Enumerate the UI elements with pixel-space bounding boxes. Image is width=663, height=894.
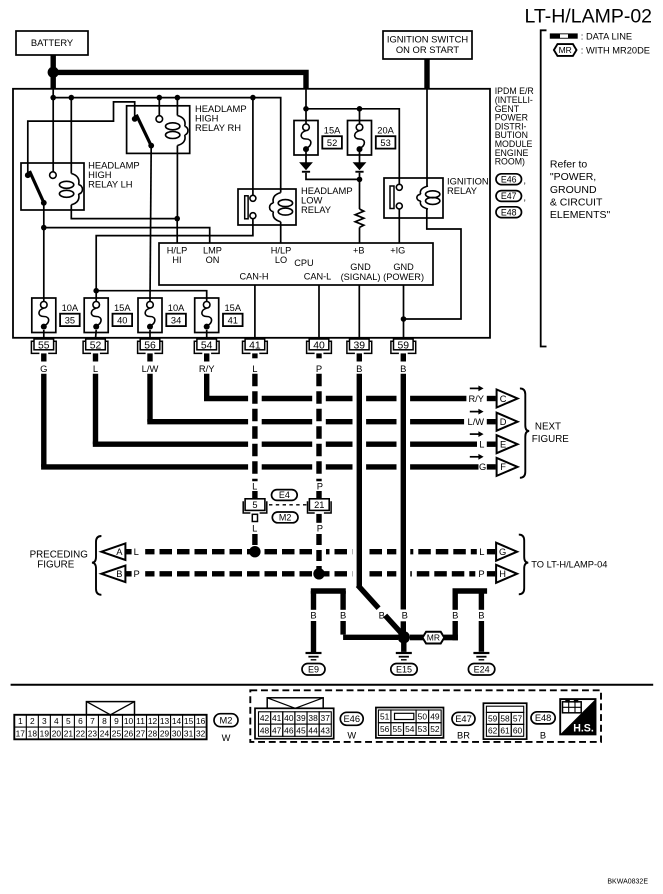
wire GND POWER to term59: [403, 285, 405, 339]
svg-text:G: G: [40, 363, 47, 374]
relay ignition box: [384, 178, 443, 218]
svg-text:52: 52: [430, 724, 440, 734]
dashed HS box: [250, 690, 601, 742]
oval E48 label: [496, 207, 522, 218]
svg-text:E47: E47: [501, 191, 517, 201]
svg-text:,: ,: [524, 176, 526, 186]
node CAN-H bus: [249, 546, 260, 557]
triangle A: [101, 543, 125, 560]
svg-text:P: P: [317, 523, 323, 534]
svg-text:12: 12: [148, 716, 158, 726]
svg-text:G: G: [479, 462, 486, 472]
next figure row D: [470, 411, 480, 413]
svg-text:43: 43: [321, 725, 331, 735]
svg-text:R/Y: R/Y: [199, 363, 215, 374]
wire fuse40 to term52: [95, 330, 98, 339]
svg-text:22: 22: [76, 728, 86, 738]
relay LH blade out node: [41, 200, 47, 206]
fuse 10A 34: [138, 298, 186, 333]
svg-text:B: B: [478, 609, 484, 620]
wire rail to LH contact: [52, 98, 54, 172]
svg-text:LMP: LMP: [203, 245, 222, 255]
svg-text:44: 44: [308, 725, 318, 735]
node coil-gnd join: [401, 316, 407, 322]
connector M2 tab: [86, 702, 134, 715]
oval E47 label: [496, 191, 522, 202]
wire B39 diagonal: [358, 585, 379, 608]
svg-text:RELAY LH: RELAY LH: [88, 178, 132, 189]
IPDM E/R box: [13, 89, 490, 338]
diode D2: [359, 152, 361, 163]
node diode join: [357, 177, 363, 183]
wire battery stub into IPDM: [51, 72, 56, 89]
wire ignition contact to +IG: [398, 209, 400, 243]
oval E46: [340, 712, 363, 725]
svg-text:16: 16: [196, 716, 206, 726]
svg-text:BKWA0832E: BKWA0832E: [607, 879, 648, 886]
wire B39: [357, 374, 362, 587]
svg-text:34: 34: [171, 315, 181, 325]
ground U right: [453, 588, 488, 593]
svg-text:CPU: CPU: [294, 258, 313, 268]
terminal 41: [243, 339, 268, 353]
svg-text:"POWER,: "POWER,: [550, 171, 596, 183]
wire B59: [401, 374, 406, 610]
terminal 54: [194, 339, 219, 353]
svg-text:21: 21: [64, 728, 74, 738]
svg-text:51: 51: [380, 712, 390, 722]
svg-text:19: 19: [40, 728, 50, 738]
dashed link 5-21: [269, 504, 308, 506]
svg-text:H/LP: H/LP: [271, 245, 291, 255]
node rail dots: [50, 95, 56, 101]
relay RH NO contact: [156, 116, 163, 123]
svg-text:25: 25: [112, 728, 122, 738]
svg-text:B: B: [540, 731, 546, 741]
terminal 40: [307, 339, 332, 353]
svg-text:32: 32: [196, 728, 206, 738]
svg-text:E15: E15: [396, 664, 412, 674]
wire stub R/Y at 206.7: [204, 353, 209, 361]
wire fuse35 to term55: [43, 330, 45, 339]
svg-text:: DATA LINE: : DATA LINE: [581, 32, 632, 42]
svg-text:E24: E24: [474, 664, 490, 674]
svg-text:39: 39: [354, 341, 366, 352]
svg-text:59: 59: [488, 714, 498, 724]
svg-text:RELAY RH: RELAY RH: [195, 122, 241, 133]
wire stub P at 319: [316, 353, 321, 358]
svg-text:7: 7: [90, 716, 95, 726]
wire diode join: [306, 173, 360, 180]
wire resistor to +B: [359, 227, 361, 243]
terminal 55: [31, 339, 56, 353]
svg-text:55: 55: [38, 341, 50, 352]
fuse 20A 53: [348, 121, 396, 156]
relay RH blade out node: [148, 143, 154, 149]
battery: [16, 31, 88, 55]
svg-text:BATTERY: BATTERY: [31, 37, 74, 48]
svg-text:23: 23: [88, 728, 98, 738]
svg-text:E48: E48: [501, 207, 517, 217]
wire R/Y: [204, 374, 209, 399]
svg-text:& CIRCUIT: & CIRCUIT: [550, 196, 603, 208]
svg-text:A: A: [116, 547, 123, 557]
svg-text:38: 38: [308, 713, 318, 723]
wire LH coil out: [71, 205, 177, 219]
HS icon: [563, 702, 582, 713]
ground E9: [306, 652, 322, 654]
node coil join: [174, 216, 180, 222]
wire CAN-H lower: [252, 534, 257, 552]
wire stub B at 403.3: [401, 353, 406, 361]
svg-text:(SIGNAL): (SIGNAL): [341, 272, 381, 282]
svg-text:5: 5: [252, 500, 257, 510]
svg-text:13: 13: [160, 716, 170, 726]
svg-text:B: B: [379, 609, 385, 620]
svg-text:18: 18: [28, 728, 38, 738]
svg-text:E9: E9: [308, 664, 319, 674]
svg-text:B: B: [116, 569, 122, 579]
node LH blade branch: [41, 225, 47, 231]
HS box: [560, 699, 595, 734]
legend MR hexagon: [554, 44, 577, 56]
wire CAN-L to term40: [318, 285, 320, 339]
ground E15: [401, 640, 406, 652]
svg-text:RELAY: RELAY: [301, 204, 332, 215]
svg-text:40: 40: [313, 341, 325, 352]
svg-text:(POWER): (POWER): [383, 272, 424, 282]
svg-text:47: 47: [272, 725, 282, 735]
wire LH blade to fuse35: [43, 203, 45, 302]
MR hexagon lower: [410, 635, 423, 641]
next figure row C: [470, 387, 480, 389]
svg-text:52: 52: [90, 341, 102, 352]
node fuse41 branch: [93, 288, 99, 294]
svg-text:26: 26: [124, 728, 134, 738]
wire stub L at 95.5: [93, 353, 98, 361]
svg-text:CAN-L: CAN-L: [304, 271, 332, 281]
next figure row F: [470, 456, 480, 458]
svg-text:G: G: [499, 547, 506, 557]
svg-text:41: 41: [249, 341, 261, 352]
svg-text:29: 29: [160, 728, 170, 738]
wire CAN-H to term41: [254, 285, 256, 339]
connector 21 lower stub: [316, 514, 321, 523]
svg-text:31: 31: [184, 728, 194, 738]
svg-text:52: 52: [327, 138, 337, 148]
connector 21: [309, 499, 329, 511]
svg-text:LT-H/LAMP-02: LT-H/LAMP-02: [525, 5, 653, 27]
wire fuse34 to term56: [149, 330, 151, 339]
triangle B: [101, 566, 125, 583]
svg-text:P: P: [478, 568, 484, 579]
svg-text:W: W: [222, 733, 231, 743]
svg-text:MR: MR: [427, 633, 440, 643]
svg-text:B: B: [356, 363, 362, 374]
svg-text:NEXT: NEXT: [535, 421, 561, 432]
svg-text:54: 54: [201, 341, 213, 352]
svg-text:W: W: [347, 731, 356, 741]
svg-text:5: 5: [66, 716, 71, 726]
wire GND SIGNAL to term39: [358, 285, 360, 339]
wire LMP ON: [44, 228, 210, 243]
wire fuse53 feed: [359, 109, 361, 124]
ground E24: [473, 652, 489, 654]
svg-text:,: ,: [524, 192, 526, 202]
wire L/W: [147, 374, 152, 422]
svg-text:20A: 20A: [377, 125, 394, 135]
oval M2: [214, 714, 238, 727]
wire rail to RH coil: [176, 98, 178, 116]
wire fuse52 feed: [305, 109, 307, 124]
relay RH coil: [177, 116, 185, 127]
svg-text:55: 55: [393, 724, 403, 734]
svg-text:ON: ON: [206, 255, 220, 265]
wire ignition coil to gnd line: [404, 209, 462, 319]
svg-text:FIGURE: FIGURE: [37, 559, 74, 570]
svg-text:HI: HI: [172, 255, 181, 265]
svg-text:L/W: L/W: [468, 417, 485, 427]
wire stub L at 254.9: [252, 353, 257, 358]
svg-text:56: 56: [380, 724, 390, 734]
wire L horizontal: [93, 442, 248, 447]
svg-text:L: L: [93, 363, 98, 374]
relay LH blade: [30, 171, 45, 204]
wire ignition switch feed: [424, 59, 429, 89]
svg-text:P: P: [316, 363, 322, 374]
svg-text:56: 56: [144, 341, 156, 352]
svg-text:R/Y: R/Y: [468, 394, 484, 404]
next figure brace: [520, 388, 529, 477]
svg-text:GND: GND: [393, 262, 414, 272]
fuse 15A 52: [294, 121, 342, 156]
wire battery feed to fuse rail: [305, 89, 307, 109]
svg-text:6: 6: [78, 716, 83, 726]
svg-text:46: 46: [284, 725, 294, 735]
svg-text:30: 30: [172, 728, 182, 738]
svg-text:21: 21: [314, 500, 324, 510]
node fuse rail j1: [303, 106, 309, 112]
wire ignition coil feed: [426, 89, 428, 186]
svg-text:8: 8: [102, 716, 107, 726]
wire battery thick feed: [53, 72, 306, 89]
svg-text:P: P: [133, 568, 139, 579]
svg-text:+B: +B: [353, 245, 365, 255]
wire CAN-L dashed: [316, 374, 321, 482]
wire rail to LH coil: [70, 98, 72, 174]
wire CAN-L lower: [316, 534, 321, 574]
svg-text:GND: GND: [350, 262, 371, 272]
wire stub G at 43.8: [41, 353, 46, 361]
svg-text:H.S.: H.S.: [573, 722, 594, 734]
legend data line symbol: [550, 33, 578, 38]
svg-text:49: 49: [430, 712, 440, 722]
svg-text:L: L: [252, 481, 257, 492]
svg-text:L: L: [252, 523, 257, 534]
svg-text:61: 61: [500, 726, 510, 736]
wire fuse41 to term54: [206, 330, 208, 339]
svg-text:40: 40: [117, 315, 127, 325]
svg-text:37: 37: [321, 713, 331, 723]
svg-text:L: L: [252, 363, 257, 374]
svg-text:45: 45: [296, 725, 306, 735]
svg-text:27: 27: [136, 728, 146, 738]
svg-text:24: 24: [100, 728, 110, 738]
relay low contact bar: [245, 196, 248, 219]
svg-text:C: C: [500, 394, 507, 404]
svg-text:CAN-H: CAN-H: [239, 271, 268, 281]
wire L: [93, 374, 98, 445]
terminal 56: [138, 339, 163, 353]
svg-text:60: 60: [513, 726, 523, 736]
resistor: [355, 209, 364, 227]
svg-text:E4: E4: [279, 490, 290, 500]
wire G: [41, 374, 46, 467]
node fuse rail j2: [357, 106, 363, 112]
svg-text:F: F: [500, 462, 506, 472]
bus line A (top): [145, 549, 312, 554]
relay LH NO contact: [50, 172, 57, 179]
svg-text:48: 48: [260, 725, 270, 735]
diode D1: [305, 152, 307, 163]
separator line: [11, 684, 654, 686]
relay LH coil: [71, 174, 79, 185]
svg-text:57: 57: [513, 714, 523, 724]
wire pivot jog LH-RH: [28, 102, 135, 175]
svg-text:LO: LO: [275, 255, 287, 265]
svg-text:35: 35: [65, 315, 75, 325]
svg-text:9: 9: [114, 716, 119, 726]
svg-text:B: B: [340, 609, 346, 620]
svg-text:D: D: [500, 417, 507, 427]
svg-text:53: 53: [418, 724, 428, 734]
connector E47: [376, 708, 444, 738]
oval E48: [531, 712, 555, 724]
fuse 10A 35: [32, 298, 80, 333]
svg-text:58: 58: [500, 714, 510, 724]
svg-text:15A: 15A: [225, 303, 242, 313]
svg-text:10A: 10A: [62, 303, 79, 313]
svg-text:41: 41: [228, 315, 238, 325]
svg-text:H: H: [499, 569, 506, 579]
wire CAN-H dashed: [252, 374, 257, 482]
svg-text:1: 1: [18, 716, 23, 726]
svg-text:GROUND: GROUND: [550, 184, 597, 196]
svg-text:E47: E47: [455, 714, 472, 724]
svg-text:MR: MR: [559, 45, 572, 55]
relay low box: [238, 189, 296, 225]
relay low contact circles: [250, 195, 256, 201]
wire R/Y horizontal: [204, 396, 248, 401]
svg-text:E46: E46: [343, 714, 360, 724]
svg-text:P: P: [317, 481, 323, 492]
svg-text:B: B: [310, 609, 316, 620]
svg-text:H/LP: H/LP: [167, 245, 187, 255]
svg-text:54: 54: [405, 724, 415, 734]
node battery junction: [48, 67, 59, 78]
connector E48: [483, 703, 526, 739]
svg-text:BR: BR: [457, 731, 470, 741]
svg-text:59: 59: [398, 341, 410, 352]
wire low contact out: [96, 219, 253, 302]
svg-text:15: 15: [184, 716, 194, 726]
svg-text:L: L: [134, 546, 139, 557]
svg-text:ON OR START: ON OR START: [396, 44, 459, 55]
wire rail battery inside IPDM: [52, 89, 54, 98]
wire rail to low relay contact: [252, 98, 254, 196]
ignition switch: [383, 31, 472, 59]
right bracket: [541, 30, 547, 346]
fuse 15A 40: [84, 298, 132, 333]
svg-text:L: L: [479, 440, 484, 450]
svg-text:4: 4: [54, 716, 59, 726]
terminal 52: [83, 339, 108, 353]
svg-text:10A: 10A: [168, 303, 185, 313]
svg-text:E46: E46: [501, 174, 517, 184]
connector M2 grid: [14, 715, 206, 740]
oval E47: [452, 712, 475, 725]
wire stub B at 359.3: [357, 353, 362, 361]
svg-text:ELEMENTS": ELEMENTS": [550, 209, 611, 221]
svg-text:39: 39: [296, 713, 306, 723]
fuse 15A 41: [195, 298, 243, 333]
wire G horizontal: [41, 464, 248, 469]
bus line B (bottom): [145, 571, 352, 576]
svg-text:2: 2: [30, 716, 35, 726]
svg-text:53: 53: [380, 138, 390, 148]
relay low coil: [273, 193, 281, 204]
wire low coil to H/LP LO: [280, 222, 282, 243]
wire rail to RH contact: [158, 98, 160, 116]
svg-text:62: 62: [488, 726, 498, 736]
svg-text:15A: 15A: [324, 125, 341, 135]
connector 5: [245, 499, 265, 511]
relay ignition coil: [420, 186, 428, 194]
wire RH coil out to H/LP HI: [176, 146, 178, 219]
svg-text:IGNITION SWITCH: IGNITION SWITCH: [387, 34, 468, 45]
node CAN-L bus: [313, 568, 324, 579]
oval M2 mid: [272, 512, 298, 523]
svg-text:40: 40: [284, 713, 294, 723]
ground U left: [311, 588, 346, 593]
svg-text:ROOM): ROOM): [495, 157, 525, 167]
svg-text:RELAY: RELAY: [447, 185, 478, 196]
svg-text:TO LT-H/LAMP-04: TO LT-H/LAMP-04: [531, 560, 607, 570]
svg-text:14: 14: [172, 716, 182, 726]
connector 5 lower stub: [252, 514, 257, 521]
svg-text:15A: 15A: [114, 303, 131, 313]
relay ignition contact bar: [390, 186, 394, 209]
svg-text:10: 10: [124, 716, 134, 726]
svg-text:17: 17: [16, 728, 26, 738]
terminal 39: [347, 339, 372, 353]
svg-text:FIGURE: FIGURE: [532, 434, 569, 445]
svg-text:B: B: [402, 609, 408, 620]
svg-text:20: 20: [52, 728, 62, 738]
wire L/W horizontal: [147, 419, 248, 424]
connector E46: [255, 708, 334, 738]
svg-text:L/W: L/W: [142, 363, 159, 374]
wire RH blade to fuse34: [150, 146, 151, 302]
relay LH box: [21, 163, 84, 210]
node ground join: [398, 631, 410, 643]
CPU box: [159, 243, 433, 285]
svg-text:41: 41: [272, 713, 282, 723]
right brace: [519, 535, 529, 595]
svg-text:M2: M2: [220, 715, 233, 725]
relay LH pivot: [25, 172, 31, 178]
relay RH blade: [136, 115, 151, 147]
